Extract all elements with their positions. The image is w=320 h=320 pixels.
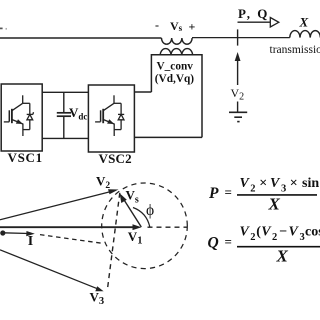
svg-text:=: = [225,234,232,249]
svg-text:+: + [189,20,196,34]
stray text fragment top-left [0,27,7,29]
wire DC bus bottom VSC1-VSC2 [42,137,88,139]
converter VSC1 box [1,84,42,151]
phasor V1 [0,224,142,230]
ground [229,112,247,121]
svg-text:-: - [155,18,159,32]
wire transmission line left segment [0,37,162,39]
phasor I [3,231,35,236]
label - Vs + [155,18,196,34]
node tick V2 bus on line [237,29,239,45]
wire VSC2 to V_conv terminal [134,91,151,93]
svg-text:V_conv: V_conv [157,61,194,73]
inductor X transmission reactance [290,31,320,38]
IGBT with antiparallel diode (VSC2) [95,95,124,136]
power-flow arrow P,Q [238,18,279,28]
Vs locus circle (dashed) [102,183,188,269]
svg-text:P, Q: P, Q [238,6,269,21]
svg-text:transmission: transmission [270,44,320,56]
svg-text:X: X [268,195,281,214]
IGBT with antiparallel diode (VSC1) [4,95,34,136]
svg-text:VSC2: VSC2 [99,151,132,166]
phasor V2 [0,189,119,220]
wire V_conv return to VSC2 [134,136,202,138]
svg-text:P: P [209,185,219,202]
phasor Vs [120,193,142,227]
V_conv box (left, top, right edges) [151,55,202,138]
svg-text:Q: Q [208,235,219,252]
equation P [209,176,319,214]
svg-text:=: = [225,185,232,200]
wire V2 to ground [237,102,239,113]
dashed I extension to circle [40,235,102,244]
dashed line V2 tip to V3 tip [107,193,119,290]
svg-text:(Vd,Vq): (Vd,Vq) [155,73,194,85]
angle phi arc [133,208,150,227]
series transformer secondary (on V_conv box) [160,49,192,56]
svg-text:X: X [276,246,289,265]
svg-text:X: X [299,15,309,30]
wire DC bus top VSC1-VSC2 [42,91,88,93]
voltage arrow V2 [235,52,241,85]
converter VSC2 box [88,85,134,152]
svg-text:I: I [28,234,33,249]
equation Q [208,225,320,266]
phasor V3 [0,250,104,291]
dashed V1 extension [148,226,188,228]
capacitor Vdc [57,92,71,138]
svg-text:VSC1: VSC1 [8,150,43,165]
wire transmission line middle segment [192,37,290,39]
svg-text:ϕ: ϕ [146,202,154,219]
series transformer primary (on line) [162,38,193,44]
origin node dot [0,230,5,235]
